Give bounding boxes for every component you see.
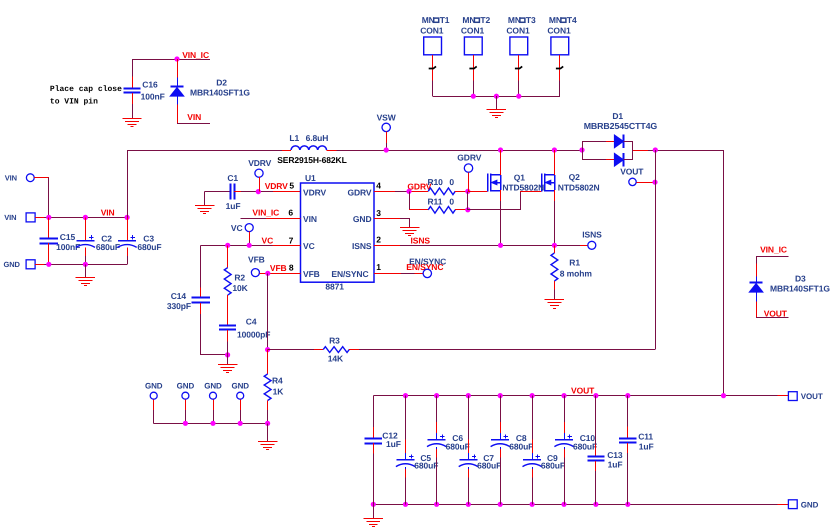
svg-text:680uF: 680uF [573,441,597,451]
svg-text:1uF: 1uF [639,441,654,451]
svg-text:C11: C11 [638,432,653,442]
svg-text:VIN_IC: VIN_IC [182,50,209,60]
svg-text:MN: MN [508,15,521,25]
svg-text:D1: D1 [612,111,623,121]
svg-text:NTD5802N: NTD5802N [558,183,600,193]
svg-text:330pF: 330pF [167,301,191,311]
svg-text:8: 8 [289,263,294,273]
svg-text:680uF: 680uF [446,441,470,451]
svg-text:GND: GND [204,381,222,390]
svg-text:GND: GND [353,214,372,224]
svg-text:VIN: VIN [5,173,17,182]
svg-text:VC: VC [231,223,243,233]
svg-text:to VIN pin: to VIN pin [50,97,98,106]
svg-text:T1: T1 [440,15,450,25]
svg-text:VSW: VSW [377,113,397,123]
svg-text:R1: R1 [569,257,580,267]
svg-text:C4: C4 [246,317,257,327]
svg-text:680uF: 680uF [509,441,533,451]
svg-text:EN/SYNC: EN/SYNC [331,269,368,279]
svg-text:3: 3 [376,208,381,218]
svg-text:GND: GND [801,500,819,509]
svg-text:7: 7 [289,235,294,245]
svg-text:GDRV: GDRV [457,153,481,163]
svg-text:VOUT: VOUT [764,308,788,318]
svg-text:6: 6 [288,208,293,218]
svg-text:GDRV: GDRV [347,187,371,197]
svg-text:R10: R10 [428,177,444,187]
svg-text:MBR140SFT1G: MBR140SFT1G [770,284,830,294]
svg-text:NTD5802N: NTD5802N [502,183,544,193]
svg-text:D3: D3 [795,274,806,284]
svg-text:U1: U1 [305,173,316,183]
svg-text:VDRV: VDRV [248,158,271,168]
svg-text:0: 0 [449,196,454,206]
svg-text:R4: R4 [272,375,283,385]
svg-text:680uF: 680uF [541,461,565,471]
svg-text:1uF: 1uF [226,201,241,211]
svg-text:2: 2 [376,235,381,245]
svg-text:VFB: VFB [270,263,287,273]
svg-text:C14: C14 [171,291,187,301]
svg-text:CON1: CON1 [461,25,485,35]
svg-text:VIN: VIN [4,213,16,222]
svg-text:680uF: 680uF [477,461,501,471]
svg-text:680uF: 680uF [96,242,120,252]
svg-text:Q1: Q1 [514,172,526,182]
svg-text:VFB: VFB [303,269,320,279]
svg-text:5: 5 [289,180,294,190]
svg-text:680uF: 680uF [137,242,161,252]
svg-text:VIN: VIN [303,214,317,224]
svg-text:680uF: 680uF [414,461,438,471]
svg-text:MN: MN [422,15,435,25]
svg-text:C16: C16 [142,80,158,90]
svg-text:1K: 1K [273,387,285,397]
svg-text:CON1: CON1 [506,25,530,35]
svg-text:MBR140SFT1G: MBR140SFT1G [190,88,250,98]
svg-text:1uF: 1uF [608,459,623,469]
svg-text:VDRV: VDRV [265,181,288,191]
svg-text:GND: GND [177,381,195,390]
svg-text:VIN_IC: VIN_IC [760,245,787,255]
svg-text:GND: GND [4,260,21,269]
svg-text:6.8uH: 6.8uH [306,133,329,143]
svg-text:MN: MN [462,15,475,25]
svg-text:100nF: 100nF [141,92,165,102]
svg-text:ISNS: ISNS [352,241,372,251]
svg-text:Q2: Q2 [569,172,581,182]
svg-text:10000pF: 10000pF [237,329,270,339]
svg-text:VOUT: VOUT [620,167,644,177]
svg-text:T2: T2 [480,15,490,25]
svg-text:T4: T4 [567,15,577,25]
svg-text:SER2915H-682KL: SER2915H-682KL [277,155,346,165]
svg-text:VFB: VFB [248,255,265,265]
svg-text:4: 4 [376,180,381,190]
svg-text:1uF: 1uF [386,439,401,449]
svg-text:MN: MN [549,15,562,25]
svg-text:D2: D2 [216,77,227,87]
svg-text:CON1: CON1 [547,25,571,35]
svg-text:VOUT: VOUT [801,392,823,401]
svg-text:MBRB2545CTT4G: MBRB2545CTT4G [584,121,658,131]
svg-text:C15: C15 [60,232,76,242]
svg-text:VIN_IC: VIN_IC [252,208,279,218]
svg-text:VIN: VIN [101,208,115,218]
svg-text:R3: R3 [329,335,340,345]
svg-text:L1: L1 [289,133,299,143]
svg-text:VDRV: VDRV [303,187,326,197]
svg-text:T3: T3 [526,15,536,25]
svg-text:VIN: VIN [187,112,201,122]
svg-text:8 mohm: 8 mohm [560,268,593,278]
svg-text:CON1: CON1 [420,25,444,35]
svg-text:GND: GND [231,381,249,390]
svg-text:ISNS: ISNS [411,236,431,246]
svg-text:1: 1 [376,262,381,272]
svg-text:C1: C1 [227,173,238,183]
svg-text:ISNS: ISNS [582,230,602,240]
svg-text:Place cap close: Place cap close [50,85,122,94]
svg-text:VOUT: VOUT [571,386,595,396]
svg-text:GND: GND [145,381,163,390]
svg-text:0: 0 [449,177,454,187]
svg-text:VC: VC [262,236,274,246]
svg-text:R2: R2 [234,272,245,282]
svg-text:VC: VC [303,241,315,251]
svg-text:14K: 14K [328,353,344,363]
svg-text:R11: R11 [428,196,443,206]
svg-text:8871: 8871 [325,281,344,291]
svg-text:10K: 10K [232,283,248,293]
